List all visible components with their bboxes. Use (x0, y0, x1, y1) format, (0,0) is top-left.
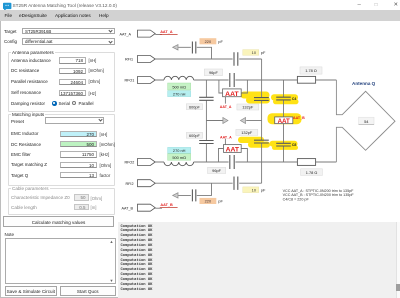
node arrow left mid (240, 118, 245, 124)
group: Cable parameters (disabled) (8, 188, 115, 215)
wire arrow branch left (246, 120, 261, 122)
pin RFI2 (126, 180, 156, 187)
value label 132pF a (237, 104, 259, 110)
wire AAT_B pin stub (155, 207, 162, 209)
title bar (0, 0, 400, 10)
wire EMC rail x206 (205, 80, 207, 162)
wire arrow branch right (206, 120, 222, 122)
wire RFO1 line (155, 79, 336, 81)
net label AAT_B bottom red (160, 203, 178, 208)
pin RFO2 (125, 159, 156, 166)
value label 500mohm a (168, 83, 191, 90)
value label 10pF a (243, 50, 266, 56)
value label R1 1.78 (300, 67, 322, 74)
button: calculate (3, 216, 114, 227)
wire RFI1 line (155, 59, 261, 80)
node arrow left b (173, 193, 178, 198)
net label AAT_A top red (160, 30, 178, 34)
wire RFI2 branch to C1b (178, 183, 211, 195)
highlight over C4 yellow (271, 94, 299, 104)
value label 220pF a (200, 38, 224, 44)
bottom buttons (5, 286, 58, 296)
log area (118, 222, 396, 293)
value label 500mohm b (168, 154, 191, 161)
value label 132pF b (236, 129, 258, 135)
note + textarea (5, 232, 15, 237)
pin RFI1 (125, 56, 155, 63)
value label 270nH a (168, 91, 191, 97)
group: Matching inputs (8, 114, 115, 186)
value label 96pF b (208, 167, 226, 173)
value label 270nH b (168, 147, 191, 153)
resistor R1 1.78ohm (297, 76, 315, 83)
wire AAT_A pin stub (155, 34, 162, 36)
capacitor C1b 220pF plates (192, 189, 195, 201)
node arrow right mid (223, 118, 228, 124)
note VCC annotations (283, 189, 355, 202)
capacitor C2a 132pF plates (254, 98, 269, 101)
capacitor C4 plates (276, 97, 291, 100)
capacitor C5b 96pF plates (230, 155, 234, 169)
wire RFO2 line (155, 161, 336, 163)
capacitor C3a 10pF plates (234, 52, 238, 65)
varactor U1 AAT (223, 89, 242, 98)
menu bar (0, 10, 400, 21)
value label 54 (359, 117, 374, 124)
group: Antenna parameters (8, 52, 115, 112)
varactor U2 AAT (224, 145, 242, 154)
highlight over AAT mid yellow (268, 113, 302, 124)
capacitor C8 plates (276, 143, 291, 146)
value label 96pF a (204, 69, 222, 76)
pin AAT_A (120, 30, 156, 37)
highlight over C2a yellow (241, 92, 271, 104)
pin RFO1 (125, 77, 156, 84)
antenna L1 outline (336, 80, 395, 162)
pin AAT_B (122, 204, 156, 211)
wire AAT1 connections (219, 80, 248, 104)
capacitor C5a 96pF plates (230, 73, 234, 87)
value label 10pF b (243, 187, 266, 193)
capacitor C3b 10pF plates (234, 177, 238, 190)
wire RFI2 line (155, 182, 261, 184)
value label 600pF a (186, 104, 202, 110)
highlight over C2b yellow (238, 137, 270, 148)
capacitor C2b 132pF plates (254, 140, 269, 143)
inductor L2b EMC (164, 162, 194, 166)
wire rail x261 (261, 80, 263, 183)
node arrow left a (173, 45, 178, 50)
capacitor C6b 600pF plates (199, 141, 213, 144)
capacitor C1a 220pF plates (192, 42, 195, 54)
wire AAT2 connections (219, 139, 248, 162)
value label 600pF b (186, 132, 202, 138)
value label 220pF b (200, 198, 224, 204)
resistor R2 1.78ohm (297, 159, 315, 166)
varactor U3 AAT mid (275, 117, 293, 125)
wire RFI1 branch to C1a (178, 47, 211, 59)
capacitor C6a 600pF plates (199, 97, 213, 100)
inductor L2a EMC (164, 76, 194, 80)
left panel (4, 29, 17, 34)
highlight over C8 yellow (270, 141, 299, 150)
value label R2 1.78 (301, 169, 323, 176)
wire rail x283 (283, 80, 285, 162)
